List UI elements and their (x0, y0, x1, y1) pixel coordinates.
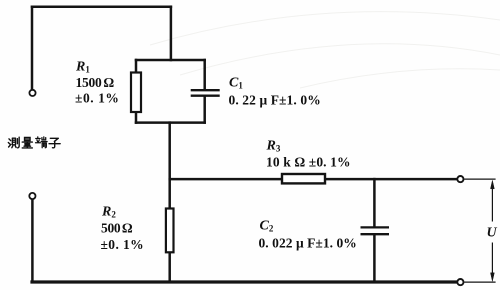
wire left vertical lower (terminal to bottom rail) (31, 199, 34, 282)
svg-text:±0. 1%: ±0. 1% (75, 91, 119, 106)
wire middle horizontal (R3 to right terminal) (325, 178, 457, 181)
svg-text:±0. 1%: ±0. 1% (101, 237, 145, 252)
svg-text:C2: C2 (260, 219, 274, 234)
U arrow lower segment with down arrowhead (491, 243, 495, 282)
wire stub right of middle terminal (464, 178, 495, 180)
capacitor C1 (191, 90, 220, 96)
svg-text:500 Ω: 500 Ω (101, 221, 133, 236)
wire block top (R1 C1 parallel top) (136, 59, 205, 62)
label terminals 测量端子 (drawn glyphs) (8, 137, 60, 148)
svg-text:R3: R3 (266, 139, 281, 154)
svg-text:10 k Ω ±0. 1%: 10 k Ω ±0. 1% (266, 155, 351, 170)
wire C2 branch upper (373, 179, 376, 226)
wire block right below C1 (203, 97, 206, 123)
resistor R2 (166, 209, 174, 253)
wire block bottom (R1 C1 parallel bottom) (136, 121, 205, 124)
svg-text:R2: R2 (101, 205, 116, 220)
wire center vertical (block bottom to R2) (168, 123, 171, 209)
svg-text:R1: R1 (75, 60, 90, 75)
resistor R1 (131, 73, 141, 113)
resistor R3 (282, 174, 325, 183)
svg-text:U: U (487, 226, 498, 241)
svg-text:0. 022 μ F±1. 0%: 0. 022 μ F±1. 0% (259, 236, 357, 251)
wire center vertical (R2 to bottom rail) (168, 252, 171, 282)
terminal upper-left (29, 90, 35, 96)
wire block left above R1 (135, 60, 138, 73)
wire left vertical upper (top wire to terminal) (31, 7, 34, 90)
svg-text:0. 22 μ F±1. 0%: 0. 22 μ F±1. 0% (229, 93, 321, 108)
wire C2 branch lower (373, 235, 376, 282)
glyph 量 (22, 137, 32, 148)
terminal bottom-right (457, 279, 463, 285)
wire top horizontal (32, 5, 171, 8)
wire block right above C1 (203, 60, 206, 89)
svg-text:1500 Ω: 1500 Ω (76, 75, 115, 90)
terminal middle-right (457, 176, 463, 182)
wire right vertical (top wire down to R1C1 block) (170, 7, 173, 60)
wire stub right of bottom terminal (464, 281, 495, 283)
U arrow upper segment with up arrowhead (491, 180, 495, 221)
capacitor C2 (361, 227, 390, 234)
terminal lower-left (29, 193, 35, 199)
wire middle horizontal (junction to R3) (170, 178, 282, 181)
wire bottom rail (32, 280, 457, 283)
glyph 测 (8, 137, 19, 148)
svg-text:C1: C1 (229, 76, 243, 91)
glyph 子 (49, 138, 60, 148)
wire block left below R1 (135, 112, 138, 123)
glyph 端 (36, 137, 48, 148)
